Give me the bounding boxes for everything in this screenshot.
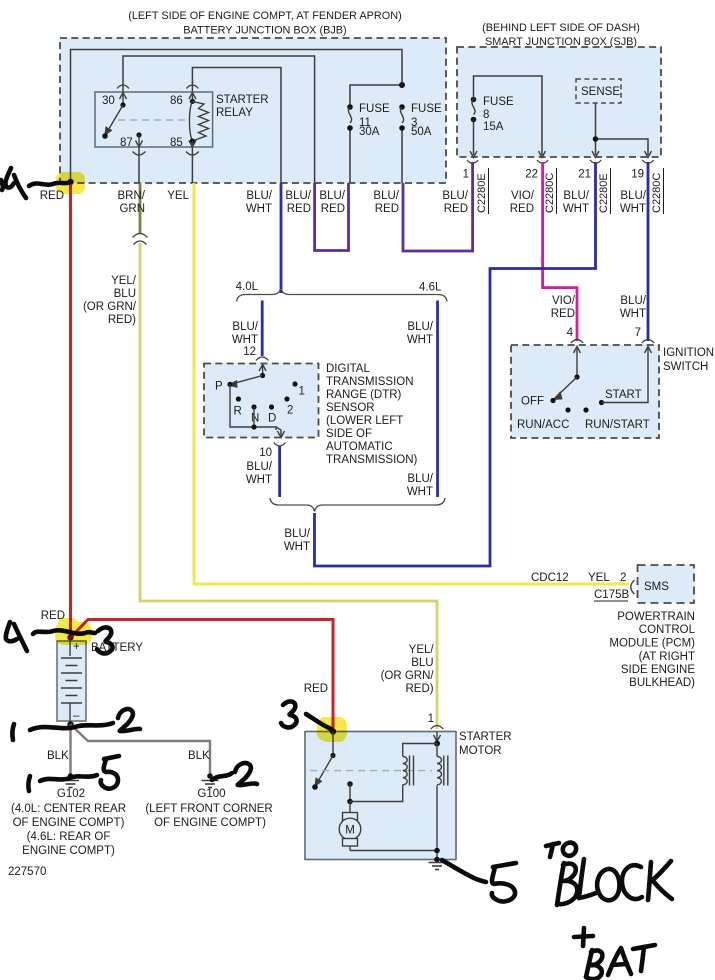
- svg-text:85: 85: [170, 137, 183, 149]
- svg-text:AUTOMATIC: AUTOMATIC: [326, 441, 393, 453]
- svg-text:WHT: WHT: [232, 334, 258, 346]
- connector cap DTR pin12: [256, 357, 268, 361]
- svg-text:–: –: [73, 710, 80, 722]
- svg-text:RUN/ACC: RUN/ACC: [517, 419, 569, 431]
- ignition RUN/ACC contact: [517, 407, 571, 431]
- svg-text:10: 10: [259, 447, 272, 459]
- fuse F3 50A: [399, 103, 442, 138]
- svg-text:WHT: WHT: [407, 486, 433, 498]
- wire coil2 bottom to ground node: [436, 786, 438, 860]
- connector label C2280C pin19: [651, 168, 664, 214]
- svg-text:TRANSMISSION: TRANSMISSION: [326, 376, 414, 388]
- svg-text:G100: G100: [197, 788, 225, 800]
- svg-text:BATTERY JUNCTION BOX (BJB): BATTERY JUNCTION BOX (BJB): [183, 25, 346, 37]
- svg-text:(LOWER LEFT: (LOWER LEFT: [326, 415, 403, 427]
- svg-text:G102: G102: [57, 788, 85, 800]
- svg-text:RUN/START: RUN/START: [585, 419, 650, 431]
- svg-text:SWITCH: SWITCH: [663, 361, 708, 373]
- svg-text:START: START: [605, 389, 642, 401]
- svg-text:22: 22: [525, 169, 538, 181]
- svg-text:BLU/: BLU/: [407, 473, 433, 485]
- ignition OFF contact: [521, 396, 556, 408]
- SJB exit arrow pin 21: [592, 151, 599, 158]
- fuse F11 30A: [347, 103, 390, 138]
- SJB exit arrow pin 1: [470, 151, 477, 158]
- wire BLU/WHT pin19 to ignition pin7: [647, 162, 650, 341]
- label IGNITION SWITCH: [663, 347, 714, 373]
- smart junction box (SJB): [457, 47, 661, 157]
- label BLU/WHT pin21: [563, 190, 590, 215]
- svg-text:CONTROL: CONTROL: [639, 624, 696, 636]
- svg-text:BLK: BLK: [188, 750, 210, 762]
- DTR pin10 arrow: [276, 427, 285, 438]
- connector cup pin 1: [467, 160, 478, 163]
- connector cap starter pin1: [431, 726, 443, 730]
- hand plus sign: [583, 928, 584, 946]
- svg-text:(OR GRN/: (OR GRN/: [381, 670, 435, 682]
- svg-text:BLU/: BLU/: [285, 190, 311, 202]
- DTR contact 2: [284, 396, 293, 416]
- connector cap ignition pin4: [571, 340, 583, 344]
- wire SENSE to pins 21 and 19: [595, 103, 597, 155]
- wire battery feed rail in BJB: [71, 50, 403, 183]
- svg-text:BLU/: BLU/: [442, 190, 468, 202]
- hand digit 2 G100: [235, 763, 257, 785]
- ground G102: [62, 773, 79, 787]
- wire YEL/BLU down-left: [140, 243, 437, 729]
- wire BLU/WHT 4.0L leg to DTR pin12: [261, 301, 264, 357]
- connector label C2280C pin22: [544, 168, 557, 214]
- svg-text:2: 2: [620, 572, 626, 584]
- svg-text:MODULE (PCM): MODULE (PCM): [609, 638, 695, 650]
- svg-text:30A: 30A: [359, 126, 380, 138]
- label BLU/WHT pin19: [620, 190, 647, 215]
- starter motor box: [305, 732, 456, 860]
- svg-text:50A: 50A: [411, 126, 432, 138]
- wire BLU/WHT 4.6L leg: [436, 301, 439, 498]
- SJB exit arrow pin 22: [539, 151, 546, 158]
- svg-text:FUSE: FUSE: [359, 103, 390, 115]
- svg-text:WHT: WHT: [563, 203, 589, 215]
- wire fuse8 bottom to pin1: [473, 120, 475, 156]
- wire BLK to G100: [71, 725, 211, 775]
- svg-text:(LEFT SIDE OF ENGINE COMPT, AT: (LEFT SIDE OF ENGINE COMPT, AT FENDER AP…: [128, 10, 402, 22]
- hand digit 3 battery: [97, 627, 113, 653]
- svg-text:19: 19: [631, 169, 644, 181]
- svg-text:D: D: [268, 413, 276, 425]
- junction red at starter box: [330, 728, 336, 734]
- svg-text:YEL: YEL: [588, 572, 610, 584]
- svg-text:C2280C: C2280C: [544, 173, 556, 213]
- svg-text:(LEFT FRONT CORNER: (LEFT FRONT CORNER: [145, 803, 272, 815]
- label VIO/RED top: [510, 190, 535, 215]
- SENSE box: [576, 79, 621, 103]
- wire BRN/GRN: [139, 183, 142, 233]
- connector label C2280E pin1: [476, 168, 489, 214]
- svg-text:WHT: WHT: [620, 308, 646, 320]
- svg-text:VIO/: VIO/: [511, 190, 535, 202]
- battery junction box (BJB): [60, 38, 446, 183]
- svg-text:RED: RED: [287, 203, 311, 215]
- junction ground node: [434, 848, 440, 854]
- svg-text:1: 1: [463, 169, 469, 181]
- label BLU/WHT 4.0L: [232, 321, 259, 346]
- svg-text:TRANSMISSION): TRANSMISSION): [326, 454, 418, 466]
- svg-text:BLU/: BLU/: [232, 321, 258, 333]
- svg-text:GRN: GRN: [119, 203, 145, 215]
- label BLU/RED d: [442, 190, 468, 215]
- svg-text:WHT: WHT: [284, 541, 310, 553]
- svg-text:RED: RED: [321, 203, 345, 215]
- svg-text:(AT RIGHT: (AT RIGHT: [639, 651, 695, 663]
- svg-text:P: P: [215, 381, 223, 393]
- battery: [57, 641, 86, 722]
- label BLU/RED b: [319, 190, 345, 215]
- connector cup pin 22: [537, 160, 548, 163]
- svg-text:STARTER: STARTER: [459, 731, 512, 743]
- svg-text:BLU/: BLU/: [407, 321, 433, 333]
- solenoid coil 2: [437, 744, 448, 786]
- svg-text:BLU: BLU: [411, 657, 433, 669]
- label BLU/WHT pin10: [246, 461, 273, 486]
- label BLU/RED a: [285, 190, 311, 215]
- ignition switch box: [511, 345, 659, 438]
- svg-text:WHT: WHT: [246, 203, 272, 215]
- svg-text:BLU/: BLU/: [246, 461, 272, 473]
- wire fuse8 top to pin22: [474, 76, 543, 155]
- DTR selector arm to P: [227, 376, 262, 388]
- DTR sensor box: [204, 364, 319, 438]
- starter solenoid wiring top: [403, 744, 437, 757]
- svg-text:RELAY: RELAY: [216, 107, 253, 119]
- label YEL/BLU at starter: [381, 644, 435, 695]
- highlighter mark battery positive: [55, 618, 92, 645]
- svg-text:STARTER: STARTER: [216, 94, 269, 106]
- svg-text:R: R: [234, 406, 242, 418]
- svg-text:WHT: WHT: [246, 474, 272, 486]
- label BLU/RED c: [373, 190, 399, 215]
- wire BLU/RED U fuse3 to SJB pin1: [403, 162, 473, 251]
- relay switch arm: [102, 105, 123, 139]
- hand text BAT: [586, 950, 592, 977]
- inline connector on BRN/GRN wire: [133, 234, 148, 245]
- brace 4.0L/4.6L split: [237, 288, 448, 302]
- relay pin 85: [170, 137, 199, 183]
- svg-text:4: 4: [567, 327, 574, 339]
- hand digit 1 battery negative: [12, 724, 14, 740]
- ignition START contact wire to pin7: [599, 347, 652, 406]
- svg-text:C2280E: C2280E: [476, 173, 488, 213]
- hand digit 5 block: [493, 863, 516, 867]
- svg-text:BLU/: BLU/: [620, 295, 646, 307]
- starter pin1 arrow: [434, 732, 441, 747]
- wire BLK to G102: [69, 725, 71, 775]
- svg-text:MOTOR: MOTOR: [459, 745, 502, 757]
- solenoid coil 1: [403, 756, 414, 786]
- wire fuse11 top link: [350, 85, 402, 107]
- relay pin 30: [102, 85, 129, 108]
- label BLU/WHT merged: [284, 528, 311, 553]
- svg-text:RED: RED: [444, 203, 468, 215]
- svg-text:OFF: OFF: [521, 396, 544, 408]
- svg-text:C2280C: C2280C: [651, 173, 663, 213]
- svg-text:227570: 227570: [8, 866, 46, 878]
- PCM location label: [609, 611, 695, 689]
- svg-text:4.6L: 4.6L: [419, 282, 442, 294]
- hand digit 4 top-left: [5, 168, 14, 188]
- hand wavy line G100: [212, 773, 232, 780]
- svg-text:2: 2: [287, 405, 293, 417]
- label G102 block: [11, 788, 126, 857]
- junction BJB battery stud: [67, 179, 73, 185]
- svg-text:BLU/: BLU/: [373, 190, 399, 202]
- svg-text:YEL: YEL: [167, 190, 189, 202]
- svg-text:RED: RED: [375, 203, 399, 215]
- starter switch arm: [312, 732, 335, 790]
- relay pin 86: [170, 85, 198, 107]
- wire BLU/WHT DTR pin10 down: [278, 446, 281, 497]
- svg-text:FUSE: FUSE: [411, 103, 442, 115]
- label BRN/GRN: [118, 190, 146, 215]
- svg-text:SIDE OF: SIDE OF: [326, 428, 372, 440]
- svg-text:POWERTRAIN: POWERTRAIN: [617, 611, 695, 623]
- relay pin 87: [120, 132, 146, 183]
- fuse F8 15A: [471, 96, 514, 133]
- svg-text:BLK: BLK: [47, 750, 69, 762]
- svg-text:RED: RED: [551, 308, 575, 320]
- ground G100: [202, 773, 219, 787]
- hand swoosh starter ground: [442, 860, 486, 882]
- svg-text:1: 1: [299, 386, 305, 398]
- svg-text:21: 21: [578, 169, 591, 181]
- svg-text:12: 12: [243, 346, 256, 358]
- svg-text:BLU: BLU: [114, 288, 136, 300]
- label BLU/WHT pin86: [246, 190, 273, 215]
- wire BLU/WHT pin21 to DTR merge: [315, 162, 596, 566]
- hand digit 5 G102: [104, 756, 119, 759]
- ignition RUN/START contact: [583, 407, 649, 431]
- svg-text:BLU/: BLU/: [620, 190, 646, 202]
- svg-text:RED): RED): [405, 683, 433, 695]
- wire BLU/RED U fuse11: [315, 183, 349, 251]
- svg-text:RED): RED): [108, 314, 136, 326]
- svg-text:ENGINE COMPT): ENGINE COMPT): [22, 845, 115, 857]
- svg-text:4.0L: 4.0L: [236, 281, 259, 293]
- svg-text:RANGE (DTR): RANGE (DTR): [326, 389, 402, 401]
- wire BLU/WHT from pin86: [280, 183, 283, 293]
- svg-text:WHT: WHT: [620, 203, 646, 215]
- wire coil1 bottom to motor node: [350, 785, 403, 802]
- hand swoosh starter feed: [306, 714, 331, 729]
- wire YEL: [194, 183, 629, 584]
- svg-text:BRN/: BRN/: [118, 190, 146, 202]
- svg-text:WHT: WHT: [407, 334, 433, 346]
- relay coil: [189, 101, 208, 141]
- svg-text:SMS: SMS: [644, 581, 669, 593]
- label BLU/WHT at ignition: [620, 295, 647, 320]
- wire RED to starter: [71, 620, 334, 732]
- brace merge 4.0L/4.6L: [270, 498, 445, 512]
- starter ground: [429, 857, 446, 870]
- connector cup pin 21: [590, 160, 601, 163]
- svg-text:FUSE: FUSE: [483, 96, 514, 108]
- hand wavy line battery negative: [30, 723, 113, 730]
- hand text TO: [546, 843, 559, 846]
- label VIO/RED at ignition: [551, 295, 576, 320]
- label YEL/BLU left: [83, 275, 137, 326]
- svg-text:C175B: C175B: [594, 589, 629, 601]
- svg-text:7: 7: [635, 327, 641, 339]
- svg-text:RED: RED: [304, 683, 328, 695]
- SMS box (PCM): [638, 565, 695, 603]
- junction battery negative: [67, 721, 73, 727]
- SJB exit arrow pin 19: [645, 151, 652, 158]
- hand wavy line G102: [40, 775, 97, 781]
- label G100 block: [145, 788, 272, 829]
- svg-text:SENSE: SENSE: [581, 86, 620, 98]
- wire motor bottom to ground node: [350, 850, 437, 852]
- hand annotation group: [1, 168, 672, 979]
- svg-text:SIDE ENGINE: SIDE ENGINE: [621, 664, 695, 676]
- connector half-circle at PCM: [631, 580, 635, 594]
- DTR contact R: [234, 396, 242, 417]
- wire VIO/RED pin22 to ignition: [543, 162, 577, 341]
- svg-text:87: 87: [120, 137, 133, 149]
- DTR contact N: [251, 404, 259, 424]
- hand digit 4 battery: [6, 622, 17, 641]
- svg-text:M: M: [345, 825, 355, 837]
- svg-text:CDC12: CDC12: [531, 572, 569, 584]
- svg-text:C2280E: C2280E: [598, 173, 610, 213]
- DTR wire N tap: [253, 407, 255, 427]
- svg-text:(4.6L: REAR OF: (4.6L: REAR OF: [27, 831, 111, 843]
- starter relay box: [95, 92, 213, 147]
- motor M: [339, 802, 361, 851]
- label BLU/WHT 4.6L lower: [407, 473, 434, 498]
- hand digit 1 G102: [28, 776, 30, 791]
- highlighter mark starter feed: [317, 717, 347, 742]
- svg-text:(OR GRN/: (OR GRN/: [83, 301, 137, 313]
- DTR contact D: [268, 404, 276, 424]
- wire pin30 to BLU/RED rail: [123, 56, 315, 183]
- DTR side label: [326, 363, 418, 466]
- svg-text:8: 8: [483, 109, 489, 121]
- svg-text:YEL/: YEL/: [111, 275, 137, 287]
- junction SENSE split: [593, 136, 599, 142]
- relay internal dashed link: [118, 119, 187, 121]
- connector label C2280E pin21: [598, 168, 611, 214]
- svg-text:BLU/: BLU/: [284, 528, 310, 540]
- label C175B: [594, 589, 629, 601]
- svg-text:86: 86: [170, 95, 183, 107]
- junction fuse rail: [399, 82, 405, 88]
- label STARTER MOTOR: [459, 731, 512, 757]
- hand digit 2 battery negative: [118, 709, 140, 731]
- hand wavy line to BJB stud: [29, 182, 71, 186]
- svg-text:YEL/: YEL/: [409, 644, 435, 656]
- label BLU/WHT 4.6L: [407, 321, 434, 346]
- svg-text:SENSOR: SENSOR: [326, 402, 375, 414]
- hand digit 3 starter: [281, 701, 297, 727]
- connector cap ignition pin7: [642, 340, 654, 344]
- svg-text:30: 30: [102, 95, 115, 107]
- svg-text:BLU/: BLU/: [319, 190, 345, 202]
- svg-text:BLU/: BLU/: [246, 190, 272, 202]
- highlighter mark BJB stud: [56, 172, 85, 194]
- DTR pin12 arrow: [259, 365, 266, 379]
- svg-text:15A: 15A: [483, 121, 504, 133]
- hand wavy line to battery positive: [33, 630, 95, 634]
- svg-text:IGNITION: IGNITION: [663, 347, 714, 359]
- DTR contact 1: [292, 381, 305, 397]
- svg-text:RED: RED: [510, 203, 534, 215]
- hand text BLOCK: [557, 863, 564, 905]
- SJB location header: [482, 22, 640, 48]
- starter internal dashed link: [310, 770, 432, 772]
- wire pin86 to BLU/WHT rail: [192, 68, 281, 184]
- svg-text:BULKHEAD): BULKHEAD): [629, 677, 695, 689]
- junction battery positive: [67, 634, 73, 640]
- svg-text:OF ENGINE COMPT): OF ENGINE COMPT): [154, 817, 266, 829]
- wire RED battery feed: [69, 183, 72, 641]
- svg-text:(4.0L: CENTER REAR: (4.0L: CENTER REAR: [11, 803, 126, 815]
- wire fuse3 bottom: [401, 128, 403, 183]
- connector cup DTR pin10: [274, 443, 286, 447]
- connector cup pin 19: [642, 160, 653, 163]
- starter fixed contact: [347, 781, 353, 804]
- svg-text:OF ENGINE COMPT): OF ENGINE COMPT): [13, 817, 125, 829]
- svg-text:DIGITAL: DIGITAL: [326, 363, 370, 375]
- ignition pin4 arrow and arm: [554, 347, 581, 400]
- svg-text:VIO/: VIO/: [552, 295, 576, 307]
- DTR wire P to pin10: [230, 384, 276, 430]
- junction N tap: [251, 424, 256, 429]
- svg-text:1: 1: [428, 713, 434, 725]
- svg-text:N: N: [251, 413, 259, 425]
- wire fuse11 bottom: [349, 128, 351, 183]
- BJB location header: [128, 10, 402, 37]
- svg-text:(BEHIND LEFT SIDE OF DASH): (BEHIND LEFT SIDE OF DASH): [482, 22, 640, 34]
- svg-text:BLU/: BLU/: [563, 190, 589, 202]
